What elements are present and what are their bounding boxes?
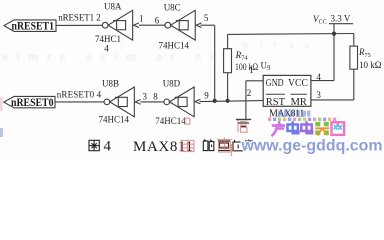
- svg-text:10 kΩ: 10 kΩ: [359, 60, 382, 70]
- svg-text:U8A: U8A: [104, 2, 122, 12]
- svg-text:U8D: U8D: [163, 78, 181, 88]
- svg-text:9: 9: [204, 90, 209, 100]
- svg-text:nRESET1: nRESET1: [12, 19, 55, 33]
- svg-text:U8B: U8B: [102, 79, 119, 89]
- svg-text:100 kΩ: 100 kΩ: [235, 62, 258, 72]
- svg-text:74HC14: 74HC14: [159, 41, 190, 51]
- svg-text:3.3 V: 3.3 V: [331, 14, 351, 24]
- svg-text:6: 6: [155, 16, 160, 26]
- svg-text:3: 3: [143, 91, 148, 101]
- svg-text:GND: GND: [266, 78, 284, 89]
- svg-text:RST: RST: [266, 97, 285, 108]
- svg-text:2: 2: [247, 88, 252, 98]
- svg-text:nRESET1 2: nRESET1 2: [58, 13, 100, 23]
- svg-text:74HC14: 74HC14: [155, 116, 186, 126]
- svg-text:5: 5: [204, 13, 209, 23]
- svg-text:3: 3: [316, 90, 321, 100]
- svg-text:MR: MR: [291, 97, 308, 108]
- svg-text:8: 8: [153, 91, 158, 101]
- svg-text:74HC14: 74HC14: [99, 114, 130, 124]
- svg-text:n i r a a: n i r a a: [243, 41, 310, 51]
- svg-text:U8C: U8C: [164, 3, 181, 13]
- svg-text:4: 4: [104, 139, 112, 155]
- svg-text:VCC: VCC: [288, 78, 308, 89]
- svg-text:www.ge-gddq.com: www.ge-gddq.com: [241, 137, 383, 154]
- svg-text:4: 4: [104, 43, 109, 53]
- svg-text:4: 4: [316, 72, 321, 82]
- svg-text:nRESET0: nRESET0: [11, 95, 54, 109]
- svg-text:aimre asim ar nim: aimre asim ar nim: [2, 50, 232, 64]
- svg-text:1: 1: [139, 14, 144, 24]
- svg-text:MAX811: MAX811: [133, 139, 193, 155]
- svg-text:nRESET0 4: nRESET0 4: [57, 90, 102, 100]
